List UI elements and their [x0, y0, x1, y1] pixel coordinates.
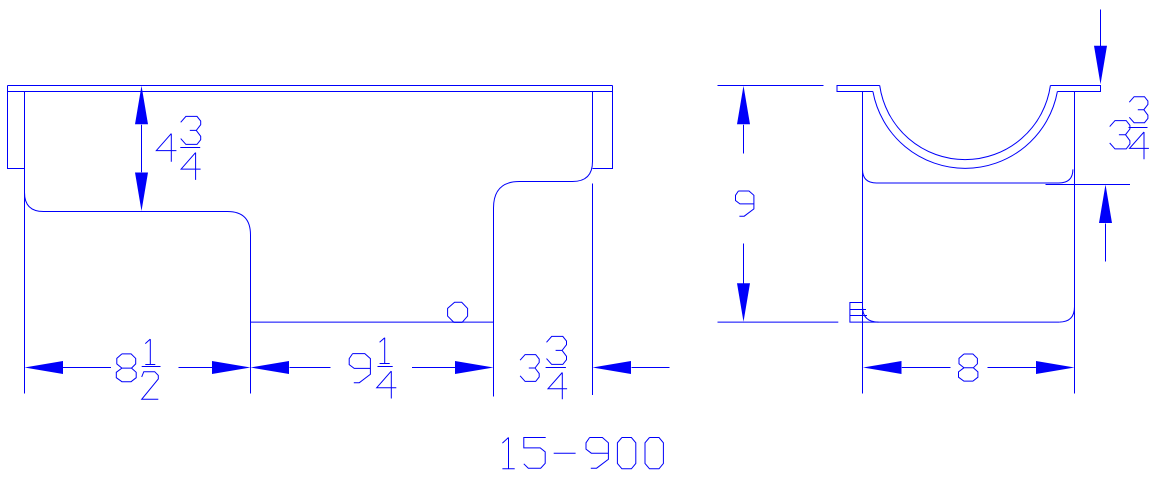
pan end view: bottom [879, 321, 1060, 323]
pan side view: sump right wall and extension line [493, 208, 495, 397]
pan side view: sump left wall and extension line [250, 235, 252, 394]
dimension text 9 [736, 191, 754, 216]
dimension line 9 [743, 125, 745, 284]
pan end view: inner floor line [863, 169, 1073, 183]
fraction bar 3/4 [180, 147, 200, 149]
arrowhead up (9) [737, 86, 750, 125]
arrowhead down (3 3/4 right) [1094, 46, 1107, 85]
pan side view: deep sump floor [251, 321, 494, 323]
pan side view: right mounting tab [593, 86, 613, 169]
drain plug (side view octagon) [448, 302, 468, 322]
pan side view: rear ledge fillet [573, 162, 593, 182]
arrowhead up (4 3/4) [135, 86, 148, 125]
pan side view: left wall and extension line [24, 92, 26, 394]
title text 15-900 [502, 438, 663, 469]
pan end view: trough outer arc [873, 92, 1058, 169]
pan side view: sump right fillet [494, 182, 520, 209]
arrowhead up (3 3/4 right) [1099, 185, 1112, 224]
dimension tail 3 3/4 [632, 367, 670, 369]
arrowhead down (9) [737, 283, 750, 322]
pan end view: bottom-right fillet [1059, 307, 1074, 322]
extension line (3 3/4 right) [1046, 184, 1131, 186]
pan side view: shallow floor [44, 211, 228, 213]
dimension text 4 3/4 [156, 116, 200, 179]
dimension line 9 1/4 [290, 367, 456, 369]
dimension text 8 [959, 354, 978, 381]
dimension text 8 1/2 [116, 339, 158, 399]
arrowhead left (8 1/2) [25, 361, 64, 374]
pan end view: trough inner arc [880, 86, 1051, 160]
arrowhead right (8) [1036, 361, 1075, 374]
dimension line 8 [902, 367, 1036, 369]
dimension text 9 1/4 [349, 338, 396, 399]
dimension line 8 1/2 [63, 367, 213, 369]
fraction bar 3/4 bottom [546, 367, 566, 369]
arrowhead left (9 1/4) [251, 361, 290, 374]
pan side view: rear ledge [520, 181, 573, 183]
arrowhead down (4 3/4) [135, 173, 148, 212]
arrowhead right (8 1/2) [212, 361, 251, 374]
fraction bar 1/4 [378, 366, 393, 368]
fraction bar 3/4 right [1129, 127, 1148, 129]
pan side view: flange top rail [8, 86, 613, 92]
pan end view: bottom-left fillet [863, 307, 879, 323]
extension line (right wall lower) [592, 184, 594, 396]
pan end view: right flange lip [1050, 86, 1100, 92]
extension line top (9) [718, 85, 824, 87]
pan side view: step fillet to deep sump [228, 212, 251, 236]
pan side view: left mounting tab [8, 86, 25, 169]
pan side view: right wall [592, 92, 594, 162]
pan side view: left wall fillet [25, 193, 44, 212]
fraction bar 1/2 [142, 366, 161, 368]
pan end view: left flange lip [837, 86, 880, 92]
leader line below (3 3/4 right) [1105, 224, 1107, 262]
pan end view: right wall and extension line [1074, 92, 1076, 394]
arrowhead left (8) [863, 361, 902, 374]
dimension line 4 3/4 vertical [141, 125, 143, 173]
dimension text 3 3/4 bottom [520, 336, 567, 399]
arrowhead right (9 1/4) [455, 361, 494, 374]
leader line above (3 3/4 right) [1100, 10, 1102, 47]
dimension text 3 3/4 right [1110, 97, 1149, 160]
pan end view: left wall and extension line [862, 92, 864, 394]
extension line bottom (9) [718, 321, 839, 323]
drain plug boss (end view) [850, 303, 879, 323]
arrowhead outside-left (3 3/4) [593, 361, 632, 374]
